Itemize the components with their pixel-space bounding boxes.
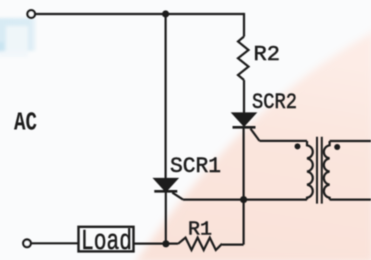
wire gate line y=199.5 (SCR1 gate to transformer primary bottom)	[183, 199, 307, 201]
node junction dot top rail (165.6,13.5)	[162, 10, 169, 17]
resistor R1	[178, 238, 222, 250]
wire SCR2 cathode down to bottom rail	[243, 127, 245, 244]
terminal (top-left AC input)	[27, 10, 35, 18]
thyristor SCR2	[233, 113, 260, 141]
svg-text:SCR1: SCR1	[170, 154, 221, 179]
load box	[79, 227, 134, 252]
node junction dot (243.6,199.6)	[240, 196, 247, 203]
pink ray background (bottom-right)	[135, 28, 371, 260]
wire R2 to SCR2	[243, 80, 245, 114]
wire secondary bottom to right edge	[330, 199, 371, 201]
wire top rail	[35, 13, 244, 15]
pale blue logo fragment top-left	[0, 18, 36, 57]
wire secondary top to right edge	[330, 140, 371, 142]
transformer T1 primary winding	[307, 141, 313, 200]
transformer secondary polarity dot	[334, 144, 340, 150]
terminal (bottom-left AC input)	[23, 240, 31, 248]
resistor R2	[238, 37, 249, 81]
svg-text:R2: R2	[254, 44, 281, 67]
svg-text:SCR2: SCR2	[252, 90, 297, 115]
wire SCR2 gate to transformer primary top	[260, 140, 308, 142]
wire load to node	[134, 243, 178, 245]
wire terminal to load	[31, 242, 78, 244]
svg-text:AC: AC	[14, 108, 37, 138]
transformer primary polarity dot	[295, 143, 301, 149]
node junction dot bottom (165.9,243.8)	[162, 240, 169, 247]
wire R1 to SCR2 branch	[222, 244, 244, 246]
svg-text:Load: Load	[81, 225, 132, 258]
transformer T1 secondary winding	[324, 141, 330, 200]
thyristor SCR1	[154, 179, 183, 200]
transformer core	[317, 137, 322, 204]
svg-text:R1: R1	[188, 219, 212, 241]
wire R2 branch drop	[243, 13, 245, 37]
wire main vertical SCR1 branch	[165, 14, 167, 179]
wire SCR1 cathode to bottom rail	[165, 191, 167, 244]
